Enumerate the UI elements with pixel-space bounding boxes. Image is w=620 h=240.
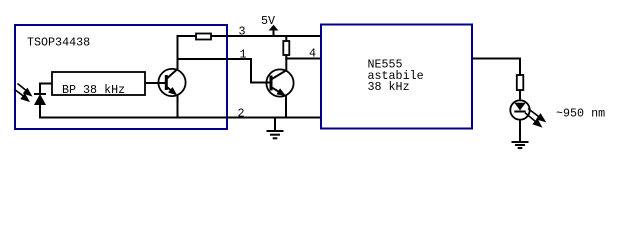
- transistor T1: [158, 69, 185, 96]
- resistor R3: [517, 75, 524, 90]
- IC box NE555: [321, 25, 472, 129]
- wire rail to R2: [285, 35, 287, 42]
- wire T1 collector up: [177, 35, 179, 70]
- wire LED cathode to ground: [519, 120, 521, 143]
- transistor Q2: [266, 69, 293, 96]
- svg-text:BP 38 kHz: BP 38 kHz: [62, 83, 125, 97]
- ground (middle): [267, 118, 284, 139]
- wire R2 down to Q2 collector: [285, 55, 287, 72]
- svg-text:3: 3: [239, 24, 246, 38]
- wire to Q2 base: [250, 82, 272, 84]
- wire output down to R3: [519, 58, 521, 76]
- ground (LED): [512, 142, 529, 148]
- wire NE555 output: [472, 58, 521, 60]
- LED emission arrows: [525, 109, 545, 127]
- wire T1 emitter down to pin2 rail: [177, 95, 179, 119]
- wire pin2 rail: [40, 117, 321, 119]
- wire pin1 down: [250, 58, 252, 83]
- 5V supply: [261, 14, 278, 37]
- filter block BP 38 kHz: [52, 72, 145, 95]
- resistor R1 pull-up: [196, 34, 211, 40]
- wire R3 to LED: [519, 90, 521, 101]
- wire Q2 emitter down: [285, 95, 287, 119]
- wire pin1 out: [178, 58, 251, 60]
- wire photodiode cathode to filter: [39, 83, 53, 85]
- wire filter to T1 base: [145, 82, 167, 84]
- svg-text:1: 1: [240, 48, 247, 62]
- module box TSOP34438: [15, 25, 227, 129]
- resistor R2: [283, 41, 289, 55]
- wire R1 to NE555 pin3: [211, 35, 322, 37]
- LED D2: [510, 100, 529, 119]
- svg-text:2: 2: [238, 107, 245, 121]
- IR light arrows: [14, 84, 31, 101]
- label NE555 astabile 38 kHz: [368, 58, 424, 95]
- svg-text:38 kHz: 38 kHz: [368, 80, 410, 94]
- photodiode D1: [34, 84, 46, 119]
- svg-text:~950 nm: ~950 nm: [556, 107, 605, 121]
- svg-text:TSOP34438: TSOP34438: [27, 36, 90, 50]
- wire pin4 to NE555: [285, 58, 321, 60]
- wire top rail to resistor R1: [177, 35, 197, 37]
